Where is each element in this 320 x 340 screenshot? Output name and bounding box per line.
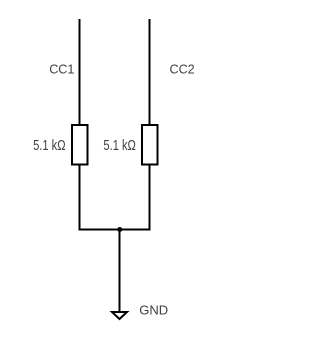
wire CC2 to resistor R2 [149, 19, 151, 126]
svg-text:GND: GND [139, 303, 168, 318]
wire from R1 bottom to junction bus to R2 bottom [80, 164, 150, 230]
svg-text:5.1 kΩ: 5.1 kΩ [33, 138, 66, 154]
resistor R1 body [72, 125, 88, 165]
svg-text:CC1: CC1 [49, 63, 74, 77]
wire junction to ground [119, 230, 121, 313]
resistor R2 body [142, 125, 158, 165]
svg-text:5.1 kΩ: 5.1 kΩ [103, 138, 136, 154]
ground symbol triangle [112, 312, 127, 319]
svg-text:CC2: CC2 [169, 63, 194, 77]
junction dot [117, 227, 122, 232]
wire CC1 to resistor R1 [79, 19, 81, 126]
